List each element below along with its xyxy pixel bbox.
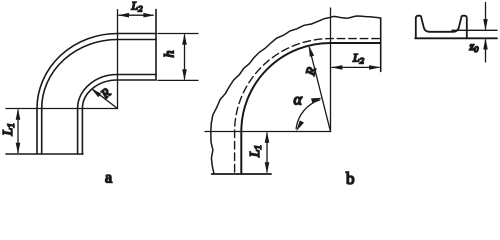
bent channel inner solid line (fig b)	[241, 43, 380, 174]
channel bottom face line + extension	[415, 37, 497, 39]
channel cross-section outline	[416, 16, 467, 39]
dimension L2 (fig a)	[118, 13, 155, 18]
channel centroid axis line	[452, 29, 497, 31]
pipe elbow outline (fig a)	[37, 34, 156, 155]
svg-text:L2: L2	[131, 0, 144, 13]
bent channel outer wavy line (fig b)	[211, 16, 381, 174]
dimension h line (fig a)	[182, 34, 187, 81]
tangent vertical line / L2 left extension (fig b)	[330, 8, 332, 132]
svg-text:L1: L1	[1, 123, 17, 137]
svg-text:α: α	[294, 92, 303, 109]
label L1 (fig b)	[247, 145, 263, 158]
channel end cap bottom + L1 extension (fig b)	[212, 173, 271, 175]
svg-text:R: R	[303, 66, 319, 78]
label R (fig b)	[303, 66, 319, 78]
label L1 (fig a)	[1, 123, 17, 137]
channel end cap right + L2 extension (fig b)	[380, 18, 382, 71]
svg-text:L1: L1	[247, 145, 263, 158]
tangent vertical line / L2 left extension (fig a)	[117, 10, 119, 109]
svg-text:a: a	[105, 170, 112, 187]
dimension L1 (fig a)	[16, 109, 21, 155]
svg-text:L2: L2	[352, 50, 365, 65]
svg-text:h: h	[163, 51, 178, 58]
svg-text:b: b	[346, 169, 355, 188]
angle arc alpha (fig b)	[296, 98, 322, 132]
label R (fig a)	[98, 85, 114, 102]
pipe end cap bottom + L1 extension line (fig a)	[6, 153, 83, 155]
radius line R (fig b)	[309, 46, 331, 132]
svg-text:R: R	[98, 85, 114, 102]
dimension L2 (fig b)	[331, 65, 380, 70]
radius leader R (fig a)	[91, 88, 118, 108]
tangent horizontal line / L1 top extension (fig b)	[205, 131, 331, 133]
svg-text:z0: z0	[469, 39, 480, 54]
bent channel centroid dashed line (fig b)	[235, 39, 381, 172]
label h (fig a)	[163, 51, 178, 58]
dimension L1 (fig b)	[265, 132, 270, 174]
dimension z0 (channel)	[483, 3, 488, 63]
dimension h extension lines (fig a)	[158, 34, 198, 81]
pipe end cap right (fig a)	[155, 10, 157, 80]
tangent horizontal line / L1 top extension (fig a)	[6, 108, 118, 110]
